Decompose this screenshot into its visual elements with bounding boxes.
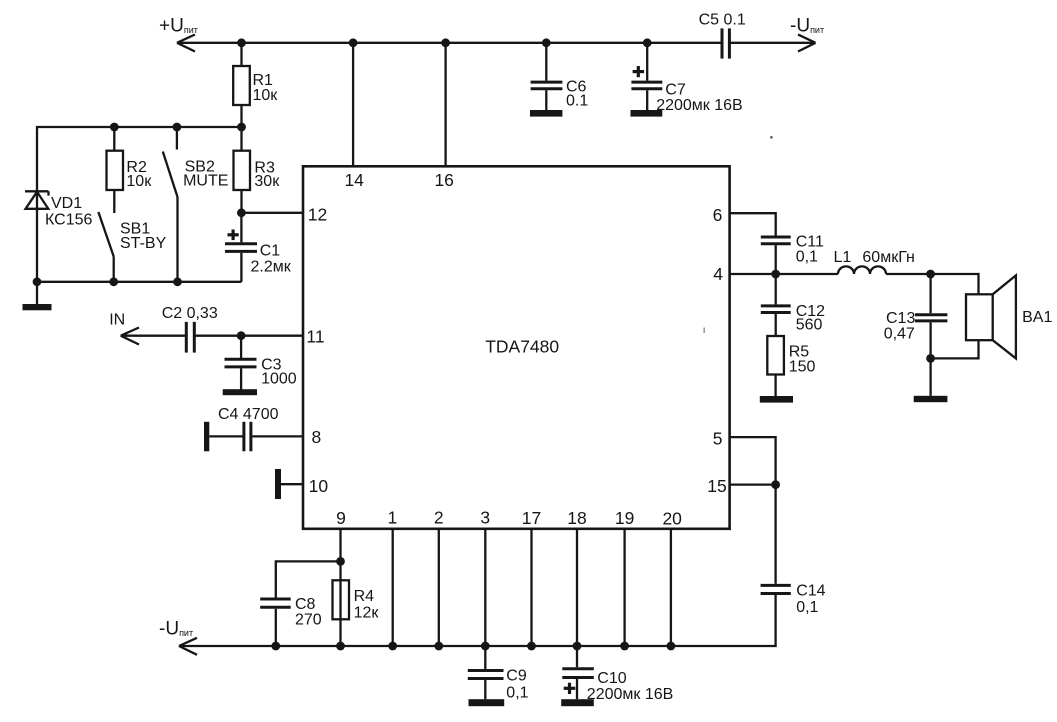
svg-text:10к: 10к	[253, 87, 279, 104]
node bottom rail / pin18-C10	[573, 642, 582, 651]
capacitor C10 2200мк 16В	[562, 646, 673, 703]
wire to pin 12	[241, 212, 303, 214]
svg-text:2.2мк: 2.2мк	[251, 258, 292, 275]
svg-text:19: 19	[615, 508, 634, 528]
resistor R2	[107, 127, 153, 213]
svg-text:5: 5	[713, 429, 723, 449]
svg-text:0,47: 0,47	[884, 326, 915, 343]
wire node row y=127	[37, 127, 242, 305]
svg-text:30к: 30к	[254, 173, 280, 190]
node pin9/R4/C8	[336, 557, 345, 566]
capacitor C3 1000	[225, 336, 297, 390]
svg-text:2200мк 16В: 2200мк 16В	[656, 97, 743, 114]
svg-text:-Uпит: -Uпит	[159, 619, 193, 640]
capacitor C11 0,1	[761, 233, 824, 274]
pin 15 wire	[730, 483, 776, 485]
svg-text:11: 11	[306, 327, 324, 347]
wire C5 to -Upit arrow	[729, 42, 815, 44]
ground R5	[760, 396, 793, 403]
svg-text:R4: R4	[354, 588, 375, 605]
pin 9 wire	[339, 529, 341, 646]
wire top supply rail	[177, 42, 721, 44]
svg-text:20: 20	[662, 509, 682, 529]
resistor R5 150	[767, 336, 815, 396]
node top rail / pin14	[349, 38, 358, 47]
node top rail / C7	[643, 38, 652, 47]
svg-text:C14: C14	[796, 583, 825, 600]
svg-text:C1: C1	[260, 243, 281, 260]
pin 10 terminal bar	[275, 469, 303, 499]
arrow -Upit (bottom left)	[179, 638, 197, 655]
svg-text:КС156: КС156	[45, 212, 92, 229]
node bottom rail / R4	[336, 642, 345, 651]
svg-text:C9: C9	[506, 668, 527, 685]
svg-text:2: 2	[434, 508, 444, 528]
svg-text:C13: C13	[886, 310, 915, 327]
resistor R3	[234, 127, 281, 213]
pin 3 wire	[484, 529, 486, 646]
pin 20 wire	[670, 529, 672, 646]
resistor R1	[233, 43, 278, 127]
arrow -Upit (right)	[798, 35, 816, 52]
node bottom rail / pin1	[388, 642, 397, 651]
speck artifact 1	[770, 136, 773, 139]
svg-text:IN: IN	[109, 312, 125, 329]
svg-text:12: 12	[308, 205, 327, 225]
svg-text:6: 6	[713, 205, 723, 225]
node top rail / R1	[237, 38, 246, 47]
IN input arrow	[109, 312, 186, 345]
wire bottom supply rail	[179, 595, 776, 646]
svg-text:C8: C8	[295, 596, 316, 613]
ground C3 (thick bar)	[223, 389, 257, 395]
svg-text:8: 8	[312, 427, 322, 447]
pin 1 wire	[392, 529, 394, 646]
node C13/BA1 bottom	[926, 354, 935, 363]
svg-text:10к: 10к	[126, 173, 152, 190]
svg-text:BA1: BA1	[1022, 309, 1052, 326]
node row / SB2	[173, 123, 182, 132]
svg-text:0.1: 0.1	[566, 92, 588, 109]
svg-text:12к: 12к	[354, 605, 380, 622]
svg-text:60мкГн: 60мкГн	[862, 249, 914, 266]
svg-text:3: 3	[480, 508, 490, 528]
node C2/C3/pin11	[237, 331, 246, 340]
speaker BA1	[931, 274, 1053, 358]
svg-text:TDA7480: TDA7480	[485, 337, 559, 357]
svg-text:560: 560	[796, 317, 823, 334]
pin 6 wire	[730, 213, 776, 235]
svg-text:150: 150	[789, 359, 816, 376]
pin 17 wire	[530, 529, 532, 646]
svg-text:0,1: 0,1	[506, 685, 528, 702]
svg-text:10: 10	[309, 476, 329, 496]
wire bottom node row y=282	[37, 281, 241, 283]
svg-text:2200мк 16В: 2200мк 16В	[587, 686, 674, 703]
node bottom row / SB1	[109, 277, 118, 286]
node bottom rail / pin19	[620, 642, 629, 651]
pin 2 wire	[438, 529, 440, 646]
svg-text:270: 270	[295, 612, 322, 629]
wire C4 to pin 8	[252, 435, 303, 437]
svg-text:C10: C10	[597, 670, 626, 687]
pin 19 wire	[623, 529, 625, 646]
wire C8 branch	[276, 561, 341, 597]
node pin5/pin15/C14	[771, 480, 780, 489]
svg-text:0,1: 0,1	[796, 599, 818, 616]
capacitor C6 0.1	[531, 43, 589, 110]
node bottom rail / pin20	[667, 642, 676, 651]
ground C7	[631, 110, 663, 117]
pin 5 wire	[730, 437, 776, 584]
capacitor C12 560	[761, 274, 825, 336]
pin 14 wire	[352, 43, 354, 167]
svg-text:16: 16	[434, 170, 453, 190]
svg-text:4: 4	[713, 264, 723, 284]
IC U1 TDA7480	[303, 166, 730, 529]
capacitor C13 0,47	[884, 274, 948, 358]
capacitor C1 2.2мк	[225, 213, 292, 282]
svg-text:17: 17	[522, 508, 541, 528]
capacitor C2 0,33	[162, 305, 218, 353]
ground C9	[469, 699, 505, 706]
capacitor C14 0,1	[761, 583, 826, 617]
ground C6	[530, 110, 562, 117]
svg-text:VD1: VD1	[51, 195, 82, 212]
capacitor C5 0.1	[699, 12, 746, 59]
svg-text:1000: 1000	[261, 371, 297, 388]
capacitor C7 2200мк 16В	[631, 43, 742, 114]
svg-text:-Uпит: -Uпит	[790, 15, 824, 36]
node R3/C1/pin12	[237, 208, 246, 217]
switch SB1 ST-BY	[98, 212, 166, 282]
node top rail / pin16	[441, 38, 450, 47]
pin 16 wire	[444, 43, 446, 167]
wire C13 to ground	[929, 358, 931, 395]
svg-text:ST-BY: ST-BY	[120, 235, 167, 252]
svg-text:0,1: 0,1	[796, 248, 818, 265]
svg-text:15: 15	[707, 476, 726, 496]
svg-text:+Uпит: +Uпит	[159, 16, 198, 37]
svg-text:L1: L1	[834, 249, 852, 266]
ground C10	[561, 699, 594, 706]
node pin4/C11/C12	[771, 270, 780, 279]
svg-text:18: 18	[567, 508, 586, 528]
svg-text:14: 14	[344, 170, 364, 190]
capacitor C4 4700	[204, 406, 279, 451]
pin 18 wire	[576, 529, 578, 646]
capacitor C9 0,1	[468, 646, 529, 702]
resistor R4 12к	[333, 580, 380, 621]
svg-text:9: 9	[336, 508, 346, 528]
node bottom row / SB2	[173, 277, 182, 286]
svg-text:C5 0.1: C5 0.1	[699, 12, 746, 29]
node bottom rail / C8	[271, 642, 280, 651]
pin 4 wire	[730, 273, 838, 275]
ground VD1	[23, 304, 52, 310]
node row / R1-R3	[237, 123, 246, 132]
node bottom row / VD1	[33, 277, 42, 286]
capacitor C8 270	[260, 596, 322, 646]
svg-text:MUTE: MUTE	[183, 173, 228, 190]
inductor L1 60мкГн	[834, 249, 915, 274]
svg-text:1: 1	[388, 508, 398, 528]
node L1/C13/BA1	[926, 270, 935, 279]
node row / R2	[110, 123, 119, 132]
ground C13	[914, 396, 948, 402]
node bottom rail / pin2	[434, 642, 443, 651]
svg-text:C2 0,33: C2 0,33	[162, 305, 218, 322]
wire C2 to pin 11	[194, 335, 303, 337]
zener diode VD1 КС156	[25, 191, 92, 228]
arrow +Upit (left)	[177, 35, 195, 52]
speck artifact 2	[703, 328, 705, 334]
node bottom rail / pin3-C9	[481, 642, 490, 651]
wire L1 to speaker	[886, 273, 931, 275]
net +Upit label	[159, 16, 198, 37]
node bottom rail / pin17	[527, 642, 536, 651]
svg-text:C4 4700: C4 4700	[218, 406, 279, 423]
node top rail / C6	[542, 38, 551, 47]
switch SB2 MUTE	[163, 127, 229, 282]
